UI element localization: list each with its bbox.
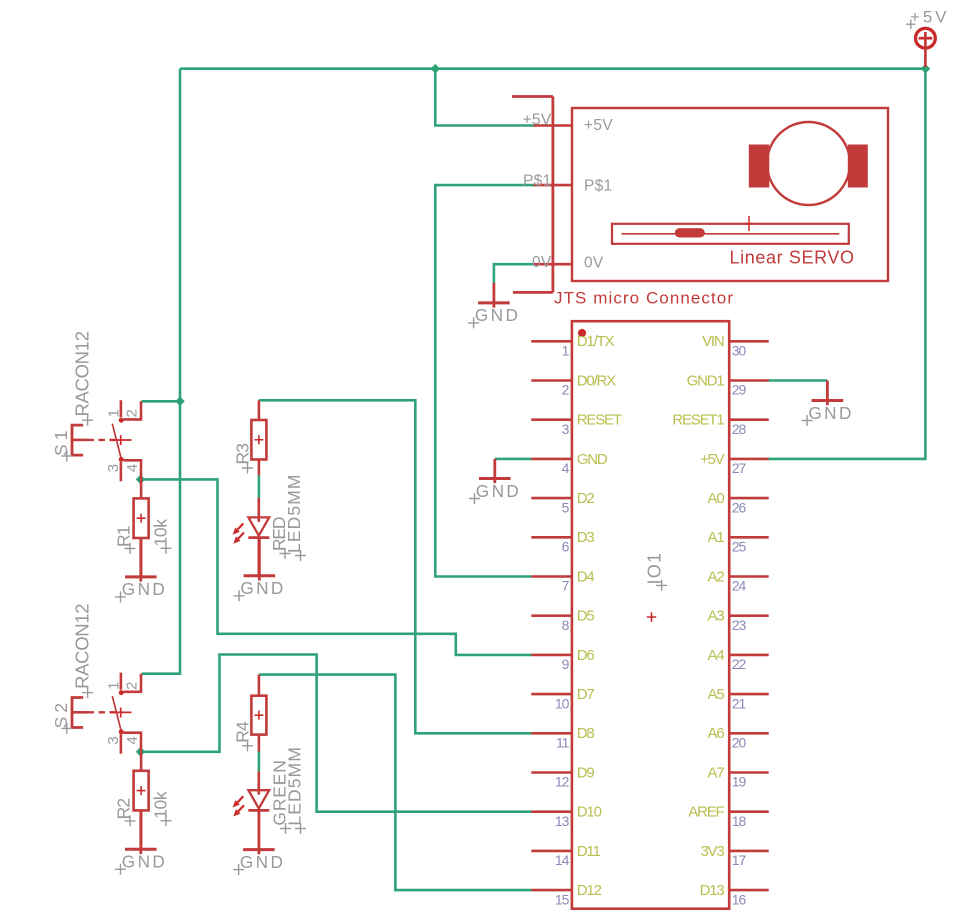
svg-text:13: 13	[555, 813, 570, 829]
svg-text:GND: GND	[808, 403, 851, 423]
svg-text:17: 17	[732, 852, 747, 868]
wire +5V rail to IO1 pin 27	[768, 69, 926, 459]
svg-text:S2: S2	[51, 703, 71, 729]
IO1 pin 25 A1	[708, 529, 769, 554]
svg-text:27: 27	[732, 460, 747, 476]
switch S1 actuator	[72, 425, 116, 455]
svg-text:P$1: P$1	[584, 178, 612, 195]
svg-text:GND: GND	[577, 451, 608, 468]
IO1 pin 12 D9	[531, 764, 594, 789]
svg-text:LED5MM: LED5MM	[284, 475, 304, 554]
svg-text:AREF: AREF	[688, 804, 724, 821]
switch S2 actuator	[72, 698, 116, 728]
+5V supply symbol P+5V	[906, 8, 947, 68]
resistor R4	[251, 675, 266, 752]
IO1 pin 16 D13	[700, 882, 769, 907]
junction S2 pin 4 / R2	[136, 747, 146, 757]
IO1 pin 14 D11	[531, 843, 600, 868]
junction S1 pin 2 branch	[175, 397, 185, 407]
IO1 pin 18 AREF	[688, 804, 768, 829]
resistor R1	[134, 479, 149, 577]
IO1 pin 30 VIN	[702, 333, 769, 358]
IC IO1 body	[572, 321, 729, 909]
svg-text:7: 7	[562, 578, 570, 594]
LED RED LED5MM	[248, 498, 269, 576]
svg-text:23: 23	[732, 617, 747, 633]
switch S1 lever	[112, 424, 121, 459]
ground at JTS 0V	[468, 283, 518, 328]
svg-text:RACON12: RACON12	[71, 603, 92, 689]
svg-text:+5V: +5V	[700, 451, 725, 468]
junction +5V rail / supply	[921, 64, 931, 74]
switch S2 lever	[112, 696, 121, 731]
servo linear potentiometer	[612, 224, 849, 244]
IO1 pin 27 +5V	[700, 451, 769, 476]
servo origin cross	[745, 216, 754, 231]
svg-text:3: 3	[105, 736, 122, 744]
label GREEN LED5MM	[285, 747, 306, 834]
switch S2 pin 2	[124, 674, 142, 692]
svg-text:22: 22	[732, 656, 747, 672]
servo label 0V	[584, 255, 604, 272]
IO1 pin 11 D8	[531, 725, 594, 750]
label R2 value 10k	[150, 791, 171, 826]
switch S1 pin 1	[106, 400, 123, 417]
svg-text:10: 10	[555, 695, 570, 711]
LED RED light arrows	[233, 524, 244, 544]
ground below GREEN LED	[233, 811, 283, 875]
svg-text:D4: D4	[577, 568, 595, 585]
svg-text:16: 16	[732, 891, 747, 907]
svg-text:Linear SERVO: Linear SERVO	[730, 248, 855, 268]
IO1 pin 10 D7	[531, 686, 594, 711]
svg-text:A1: A1	[708, 529, 725, 546]
IO1 pin 22 A4	[708, 647, 769, 672]
label Linear SERVO	[730, 248, 855, 268]
wire IO1 GND (pin 4) to ground	[495, 458, 532, 461]
label RED	[269, 517, 290, 560]
connector pin +5V	[523, 112, 572, 129]
resistor R2	[134, 752, 149, 850]
svg-text:1: 1	[106, 682, 123, 690]
IO1 pin 6 D3	[531, 529, 594, 554]
svg-text:D8: D8	[577, 725, 595, 742]
svg-text:4: 4	[124, 464, 141, 472]
LED GREEN light arrows	[233, 796, 244, 816]
svg-text:GND: GND	[240, 578, 283, 598]
junction +5V rail / JTS drop	[431, 64, 441, 74]
label R1	[113, 526, 135, 555]
wire +5V rail to JTS +5V pin	[435, 69, 533, 126]
label S1 RACON12	[71, 331, 93, 426]
svg-text:3: 3	[562, 421, 570, 437]
svg-text:GND: GND	[240, 852, 283, 872]
label S1	[51, 431, 73, 462]
wire R3 to RED LED	[258, 475, 261, 498]
svg-text:30: 30	[732, 343, 747, 359]
svg-text:25: 25	[732, 539, 747, 555]
connector JTS body	[512, 97, 553, 293]
switch S1 origin cross	[110, 435, 132, 445]
svg-text:D11: D11	[577, 843, 601, 860]
switch S2 pin 4	[124, 733, 142, 752]
LED GREEN LED5MM	[248, 772, 269, 850]
IO1 pin 28 RESET1	[672, 412, 768, 437]
svg-text:LED5MM: LED5MM	[285, 747, 305, 826]
svg-text:29: 29	[732, 382, 747, 398]
svg-text:15: 15	[555, 891, 570, 907]
svg-text:0V: 0V	[532, 254, 552, 271]
wire S2 pin 4 to IO1 D10 (pin 13)	[141, 655, 532, 812]
wire R4 to IO1 D12 (pin 15)	[259, 675, 532, 891]
switch S1 contact dots	[119, 418, 124, 462]
IO1 pin 17 3V3	[700, 843, 768, 868]
svg-text:11: 11	[556, 735, 570, 751]
svg-text:IO1: IO1	[645, 553, 665, 585]
ground below R2	[115, 810, 165, 874]
IO1 pin 23 A3	[708, 608, 769, 633]
connector pin P$1	[523, 173, 572, 190]
svg-text:19: 19	[732, 774, 747, 790]
svg-text:D9: D9	[577, 764, 595, 781]
connector pin 0V	[532, 254, 572, 271]
svg-text:20: 20	[732, 735, 747, 751]
svg-text:8: 8	[562, 617, 570, 633]
svg-text:26: 26	[732, 499, 747, 515]
svg-text:D13: D13	[700, 882, 725, 899]
label R1 value 10k	[150, 519, 171, 554]
wire IO1 GND1 (pin 29) to ground	[768, 379, 828, 382]
servo label P$1	[584, 178, 612, 195]
svg-text:21: 21	[732, 695, 747, 711]
IO1 pin 5 D2	[531, 490, 594, 515]
label R4	[233, 721, 253, 751]
resistor R3	[251, 400, 266, 475]
svg-text:4: 4	[124, 736, 141, 744]
svg-text:24: 24	[732, 578, 747, 594]
servo motor	[749, 122, 868, 205]
svg-text:D5: D5	[577, 608, 595, 625]
servo label +5V	[584, 117, 613, 134]
ground below R1	[115, 538, 165, 602]
svg-text:4: 4	[562, 460, 570, 476]
svg-text:2: 2	[562, 382, 570, 398]
wire JTS P$1 to IO1 D4 (pin 7)	[435, 185, 533, 576]
svg-text:A2: A2	[708, 568, 725, 585]
switch S2 pin 3	[105, 734, 122, 754]
switch S1 pin 2	[124, 401, 142, 419]
svg-text:R3: R3	[233, 443, 253, 465]
label S2	[51, 703, 73, 734]
svg-text:JTS micro Connector: JTS micro Connector	[554, 289, 733, 308]
ground below RED LED	[234, 537, 284, 601]
switch S1 pin 3	[105, 462, 122, 482]
svg-text:D1/TX: D1/TX	[577, 333, 615, 350]
svg-text:18: 18	[732, 813, 747, 829]
svg-text:GND: GND	[122, 852, 165, 872]
svg-text:A3: A3	[708, 608, 725, 625]
svg-text:D12: D12	[577, 882, 602, 899]
label R3	[233, 443, 253, 474]
svg-text:A4: A4	[708, 647, 725, 664]
IO1 pin 9 D6	[531, 647, 594, 672]
svg-text:10k: 10k	[150, 791, 170, 819]
svg-text:0V: 0V	[584, 255, 604, 272]
switch S2 contact dots	[119, 690, 124, 734]
svg-text:+5V: +5V	[584, 117, 613, 134]
IO1 pin 21 A5	[708, 686, 769, 711]
switch S2 pin 1	[106, 673, 123, 690]
svg-text:RACON12: RACON12	[71, 331, 92, 417]
wire +5V rail top	[180, 67, 925, 70]
IO1 pin 3 RESET	[531, 412, 622, 437]
svg-text:2: 2	[124, 409, 141, 417]
svg-text:D6: D6	[577, 647, 595, 664]
IO1 pin 20 A6	[708, 725, 769, 750]
svg-text:GND: GND	[475, 305, 518, 325]
svg-text:RESET1: RESET1	[672, 412, 724, 429]
switch S2 origin cross	[110, 708, 132, 718]
wire branch to S1 pin 2	[142, 400, 181, 403]
svg-text:+5V: +5V	[523, 112, 552, 129]
IC IO1 pin-1 mark	[578, 329, 586, 337]
IO1 pin 26 A0	[708, 490, 769, 515]
svg-text:D7: D7	[577, 686, 595, 703]
IO1 pin 19 A7	[708, 764, 769, 789]
wire JTS 0V to ground	[494, 264, 534, 283]
svg-text:5: 5	[562, 499, 570, 515]
IO1 pin 29 GND1	[687, 372, 769, 397]
svg-text:D0/RX: D0/RX	[577, 372, 616, 389]
servo box outline	[572, 108, 888, 281]
svg-text:A0: A0	[708, 490, 725, 507]
junction S1 pin 4 / R1	[136, 475, 146, 485]
svg-text:RESET: RESET	[577, 412, 622, 429]
wire R4 to GREEN LED	[258, 752, 261, 772]
IO1 pin 15 D12	[531, 882, 601, 907]
IO1 pin 2 D0/RX	[531, 372, 616, 397]
svg-text:10k: 10k	[150, 519, 170, 547]
svg-text:P$1: P$1	[523, 173, 551, 190]
IO1 pin 7 D4	[531, 568, 594, 593]
svg-text:3: 3	[105, 464, 122, 472]
svg-text:A7: A7	[708, 764, 725, 781]
svg-text:12: 12	[555, 774, 570, 790]
svg-text:GND: GND	[122, 579, 165, 599]
svg-text:D2: D2	[577, 490, 595, 507]
svg-text:28: 28	[732, 421, 747, 437]
IO1 pin 8 D5	[531, 608, 594, 633]
svg-text:3V3: 3V3	[700, 843, 724, 860]
label RED LED5MM	[284, 475, 306, 562]
IO1 pin 1 D1/TX	[531, 333, 614, 358]
label JTS micro Connector	[554, 289, 733, 308]
svg-text:A5: A5	[708, 686, 725, 703]
label GREEN	[270, 760, 291, 834]
svg-text:1: 1	[562, 343, 570, 359]
svg-text:1: 1	[106, 409, 123, 417]
svg-text:9: 9	[562, 656, 570, 672]
svg-text:GND1: GND1	[687, 372, 725, 389]
IO1 origin cross	[647, 612, 656, 621]
ground at IO1 pin 29	[802, 381, 852, 427]
label IO1	[645, 553, 668, 591]
wire +5V rail left drop to S1/S2	[142, 69, 181, 674]
svg-text:+5V: +5V	[910, 8, 947, 27]
IO1 pin 13 D10	[531, 804, 601, 829]
svg-text:14: 14	[555, 852, 570, 868]
svg-text:2: 2	[124, 682, 141, 690]
ground at IO1 pin 4	[469, 459, 519, 504]
svg-text:D10: D10	[577, 804, 602, 821]
wire R3 to IO1 D8 (pin 11)	[259, 400, 532, 733]
IO1 pin 4 GND	[531, 451, 608, 476]
label R2	[113, 798, 135, 827]
wire S1 pin 4 to IO1 D6 (pin 9)	[141, 479, 532, 655]
svg-text:GND: GND	[476, 481, 519, 501]
svg-text:R4: R4	[233, 721, 253, 743]
svg-text:VIN: VIN	[702, 333, 724, 350]
IO1 pin 24 A2	[708, 568, 769, 593]
svg-text:S1: S1	[51, 431, 71, 457]
svg-text:6: 6	[562, 539, 570, 555]
switch S1 pin 4	[124, 460, 142, 479]
label S2 RACON12	[71, 603, 93, 698]
svg-text:D3: D3	[577, 529, 595, 546]
svg-text:A6: A6	[708, 725, 725, 742]
